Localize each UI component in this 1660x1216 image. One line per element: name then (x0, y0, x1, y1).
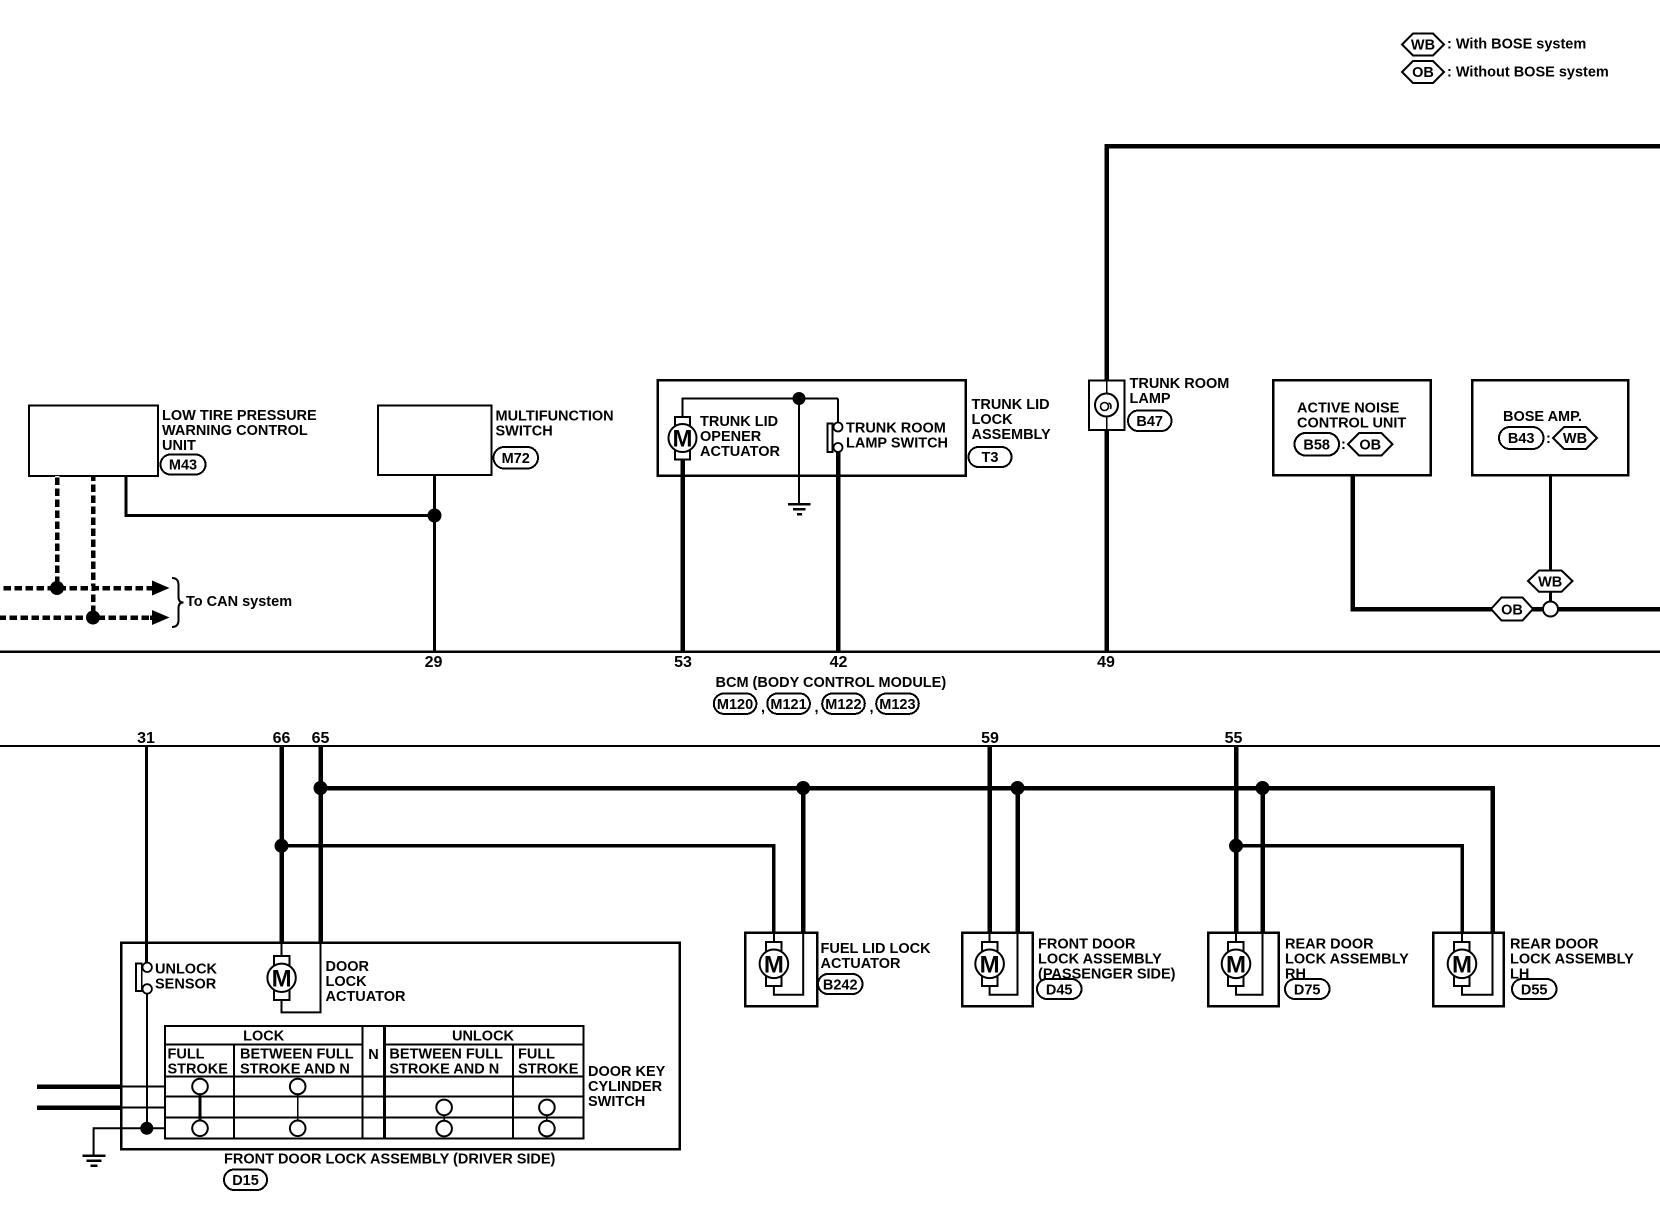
hexagon WB in BOSE box (1553, 427, 1597, 449)
connector oval B242 (818, 974, 863, 994)
svg-text:SENSOR: SENSOR (155, 977, 217, 993)
connector oval D75 (1285, 979, 1330, 999)
multifunction switch M72 box (378, 406, 492, 476)
CAN dashed vertical wire 1 (55, 476, 60, 588)
svg-text:MULTIFUNCTION: MULTIFUNCTION (496, 409, 614, 425)
trunk room lamp bulb (1095, 394, 1118, 417)
svg-text:B47: B47 (1136, 414, 1163, 430)
BCM bus line upper (0, 650, 1660, 653)
CAN dashed horizontal wire 1 (0, 586, 153, 591)
connector oval T3 (969, 447, 1012, 467)
CAN dashed horizontal wire 2 (0, 615, 153, 620)
svg-text:BETWEEN FULL: BETWEEN FULL (389, 1047, 503, 1063)
svg-text:M: M (1452, 951, 1472, 978)
switch contacts lock between full stroke and N (290, 1079, 306, 1136)
svg-text:M: M (980, 951, 1000, 978)
rear RH motor M (1222, 933, 1263, 995)
svg-text:REAR DOOR: REAR DOOR (1510, 936, 1599, 952)
wire rear RH loop vertical (1260, 788, 1265, 933)
svg-text:TRUNK ROOM: TRUNK ROOM (1130, 376, 1230, 392)
connector oval B43 (1499, 427, 1544, 449)
svg-text:UNLOCK: UNLOCK (452, 1029, 515, 1045)
wire pin 55 down (1234, 746, 1239, 933)
BCM bus line lower (0, 745, 1660, 747)
svg-text:BETWEEN FULL: BETWEEN FULL (240, 1047, 354, 1063)
label TRUNK ROOM LAMP (1130, 376, 1230, 407)
door key cylinder switch table (165, 1026, 584, 1139)
svg-text:B58: B58 (1303, 438, 1330, 454)
label MULTIFUNCTION SWITCH (496, 409, 614, 440)
svg-text:49: 49 (1097, 654, 1115, 671)
label TRUNK LID OPENER ACTUATOR (700, 414, 781, 460)
wire to ground (798, 399, 800, 504)
svg-text:TRUNK ROOM: TRUNK ROOM (846, 421, 946, 437)
svg-text:LOCK: LOCK (326, 974, 368, 990)
svg-text:D45: D45 (1046, 982, 1073, 998)
label FULL STROKE lock (168, 1047, 229, 1078)
wire top feed horizontal (1104, 144, 1660, 149)
label FUEL LID LOCK ACTUATOR (821, 941, 932, 972)
svg-text:LAMP SWITCH: LAMP SWITCH (846, 436, 948, 452)
legend OB symbol (1402, 61, 1609, 83)
svg-text:LAMP: LAMP (1130, 391, 1171, 407)
wire M72 to BCM pin 29 (433, 475, 436, 652)
CAN arrowhead 1 (152, 581, 170, 596)
svg-text:42: 42 (830, 654, 848, 671)
wire front loop vertical (1015, 788, 1020, 933)
wire rail B2 horizontal 55 to rear LH (1236, 844, 1464, 848)
wire rail B2 corner down to LH motor (1460, 844, 1464, 933)
front door lock assembly passenger box (962, 933, 1033, 1007)
front door motor M (975, 933, 1017, 995)
wire M43 to node A (126, 476, 435, 516)
svg-text:ACTUATOR: ACTUATOR (326, 989, 407, 1005)
label FRONT DOOR LOCK ASSEMBLY (PASSENGER SIDE) (1038, 936, 1176, 982)
connector oval M43 (161, 455, 206, 475)
junction dot rail A rear RH loop (1256, 781, 1270, 795)
joint circle WB/OB (1543, 602, 1558, 617)
switch contacts unlock full stroke (539, 1100, 555, 1137)
CAN dashed vertical wire 2 (91, 476, 96, 618)
hexagon OB on wire (1491, 598, 1533, 621)
label FULL STROKE unlock (518, 1047, 579, 1078)
svg-text:LOCK: LOCK (243, 1029, 285, 1045)
svg-text:ACTUATOR: ACTUATOR (821, 956, 902, 972)
junction dot CAN line 2 (86, 611, 100, 625)
svg-text:DOOR KEY: DOOR KEY (588, 1064, 666, 1080)
wire trunk motor to BCM pin 53 (680, 459, 685, 652)
svg-text:WB: WB (1538, 575, 1562, 591)
label REAR DOOR LOCK ASSEMBLY RH (1285, 936, 1409, 982)
svg-text:M123: M123 (879, 697, 915, 713)
wire unlock sensor to splice (146, 994, 148, 1129)
svg-text::: : (1341, 437, 1346, 453)
svg-text:55: 55 (1225, 730, 1243, 747)
ground symbol trunk (788, 504, 811, 514)
connector oval M122 (822, 694, 873, 717)
connector oval D55 (1512, 979, 1557, 999)
connector oval B47 (1128, 411, 1172, 432)
svg-text:REAR DOOR: REAR DOOR (1285, 936, 1374, 952)
rear door lock assembly RH box (1208, 933, 1279, 1007)
svg-text:M72: M72 (502, 451, 530, 467)
svg-text:65: 65 (312, 730, 330, 747)
junction dot sensor row 3 (140, 1122, 153, 1135)
svg-text:D15: D15 (232, 1173, 259, 1189)
svg-text:TRUNK LID: TRUNK LID (700, 414, 778, 430)
junction dot trunk rail (793, 392, 806, 405)
junction dot 65 rail A (314, 781, 328, 795)
wire stub row 2 (37, 1105, 122, 1110)
wire thin through lamp box (1106, 381, 1108, 431)
connector oval M123 (876, 694, 919, 714)
svg-text:FRONT DOOR LOCK ASSEMBLY (DRIV: FRONT DOOR LOCK ASSEMBLY (DRIVER SIDE) (224, 1152, 556, 1168)
svg-text:To CAN system: To CAN system (186, 594, 292, 610)
svg-text:53: 53 (674, 654, 692, 671)
wire pin 66 down (279, 746, 284, 943)
connector oval D45 (1037, 979, 1082, 999)
junction dot 66 rail B (275, 839, 289, 853)
svg-text:31: 31 (137, 730, 155, 747)
wire rail B corner down to fuel motor (772, 844, 776, 933)
svg-text:M121: M121 (770, 697, 806, 713)
svg-text:LOW TIRE PRESSURE: LOW TIRE PRESSURE (162, 408, 317, 424)
wire WB hexagon to joint (1549, 592, 1552, 603)
door lock actuator motor M (267, 943, 320, 1013)
wire row 3 to ground (94, 1128, 165, 1155)
svg-text:N: N (368, 1047, 378, 1063)
connector oval D15 (224, 1170, 267, 1191)
wire lamp switch to BCM pin 42 (836, 476, 841, 652)
switch contacts lock full stroke (192, 1079, 208, 1136)
svg-text:LOCK: LOCK (972, 412, 1014, 428)
wire ANC down (1350, 475, 1355, 611)
brace To CAN system (172, 578, 184, 627)
svg-text:CONTROL UNIT: CONTROL UNIT (1297, 416, 1406, 432)
label DOOR KEY CYLINDER SWITCH (588, 1064, 666, 1110)
connector oval B58 (1295, 433, 1340, 456)
trunk lid lock assembly T3 box (658, 380, 966, 476)
svg-text:WARNING CONTROL: WARNING CONTROL (162, 423, 308, 439)
label BETWEEN FULL STROKE AND N unlock (389, 1047, 503, 1078)
label UNLOCK SENSOR (155, 962, 218, 993)
front door lock assembly driver side D15 box (121, 943, 680, 1150)
svg-text:,: , (870, 700, 874, 716)
wire rail B horizontal 66 to fuel (282, 844, 776, 848)
svg-text:B43: B43 (1508, 431, 1535, 447)
trunk lid opener actuator motor (669, 417, 697, 460)
wire rail A horizontal (321, 786, 1495, 791)
svg-text:STROKE AND N: STROKE AND N (240, 1062, 350, 1078)
svg-text::: : (1546, 431, 1551, 447)
svg-text:T3: T3 (982, 450, 999, 466)
svg-text:OPENER: OPENER (700, 429, 762, 445)
svg-text:ASSEMBLY: ASSEMBLY (972, 427, 1052, 443)
svg-text:ACTIVE NOISE: ACTIVE NOISE (1297, 401, 1400, 417)
junction dot rail A fuel loop (796, 781, 810, 795)
svg-text:FULL: FULL (168, 1047, 205, 1063)
svg-text:59: 59 (981, 730, 999, 747)
svg-text:ACTUATOR: ACTUATOR (700, 444, 781, 460)
svg-text:STROKE: STROKE (518, 1062, 579, 1078)
svg-text:M: M (1226, 951, 1246, 978)
connector oval M120 (714, 694, 765, 717)
junction dot 55 rail B2 (1229, 839, 1243, 853)
svg-text:BOSE AMP.: BOSE AMP. (1503, 409, 1582, 425)
label LOW TIRE PRESSURE WARNING CONTROL UNIT (162, 408, 317, 454)
wire fuel loop vertical (801, 788, 806, 933)
wire lamp to BCM pin 49 (1104, 430, 1109, 652)
svg-text:FUEL LID LOCK: FUEL LID LOCK (821, 941, 932, 957)
svg-text:STROKE: STROKE (168, 1062, 229, 1078)
svg-text:D75: D75 (1294, 982, 1321, 998)
wire row 1 inside (122, 1086, 165, 1088)
unlock sensor (136, 963, 152, 994)
wire BOSE down (1549, 475, 1552, 571)
CAN arrowhead 2 (152, 610, 170, 625)
junction dot rail A front loop (1011, 781, 1025, 795)
svg-text:TRUNK LID: TRUNK LID (972, 397, 1050, 413)
svg-text:: Without BOSE system: : Without BOSE system (1447, 65, 1609, 81)
svg-text:WB: WB (1563, 431, 1587, 447)
svg-text:M120: M120 (717, 697, 753, 713)
legend WB symbol (1402, 34, 1586, 56)
svg-text:LOCK ASSEMBLY: LOCK ASSEMBLY (1285, 951, 1409, 967)
wire stub row 1 (37, 1084, 122, 1089)
rear LH motor M (1448, 933, 1493, 995)
wire pin 31 to unlock sensor (145, 746, 148, 963)
hexagon WB on wire (1528, 571, 1573, 592)
wire OB horizontal (1353, 607, 1660, 612)
svg-text:UNIT: UNIT (162, 438, 196, 454)
svg-text:29: 29 (425, 654, 443, 671)
connector oval M121 (767, 694, 818, 717)
wire pin 65 down (318, 746, 323, 943)
svg-text:DOOR: DOOR (326, 959, 370, 975)
label REAR DOOR LOCK ASSEMBLY LH (1510, 936, 1634, 982)
svg-text:FRONT DOOR: FRONT DOOR (1038, 936, 1136, 952)
svg-text:FULL: FULL (518, 1047, 555, 1063)
svg-text:M: M (764, 951, 784, 978)
svg-text:UNLOCK: UNLOCK (155, 962, 218, 978)
svg-text:M: M (272, 965, 292, 992)
wire row 2 inside (122, 1107, 165, 1109)
bose amp box (1472, 380, 1628, 475)
label TRUNK ROOM LAMP SWITCH (846, 421, 948, 452)
label BETWEEN FULL STROKE AND N lock (240, 1047, 354, 1078)
svg-text:STROKE AND N: STROKE AND N (389, 1062, 499, 1078)
rear door lock assembly LH box (1433, 933, 1504, 1007)
wire motor to top rail (682, 399, 684, 418)
trunk room lamp B47 box (1089, 381, 1125, 431)
fuel motor M (760, 933, 804, 995)
junction dot CAN line 1 (50, 581, 64, 595)
connector oval M72 (494, 447, 539, 469)
active noise control unit box (1273, 380, 1431, 475)
svg-text:66: 66 (273, 730, 291, 747)
svg-text:SWITCH: SWITCH (496, 424, 553, 440)
svg-text:M: M (673, 426, 693, 453)
svg-text:OB: OB (1501, 603, 1523, 619)
trunk room lamp switch (828, 399, 843, 477)
svg-text:CYLINDER: CYLINDER (588, 1079, 663, 1095)
svg-text:OB: OB (1412, 65, 1434, 81)
wire top rail inside trunk box (682, 398, 839, 400)
svg-text:LOCK ASSEMBLY: LOCK ASSEMBLY (1510, 951, 1634, 967)
hexagon OB in ANC box (1348, 433, 1393, 456)
fuel lid lock actuator box (745, 933, 817, 1007)
switch contacts unlock between full stroke and N (436, 1100, 452, 1137)
label TRUNK LID LOCK ASSEMBLY (972, 397, 1052, 443)
label DOOR LOCK ACTUATOR (326, 959, 407, 1005)
svg-text:M43: M43 (169, 458, 197, 474)
svg-text:OB: OB (1359, 438, 1381, 454)
wire rail A corner down to LH loop (1490, 786, 1495, 933)
svg-text:D55: D55 (1521, 982, 1548, 998)
svg-text:WB: WB (1411, 38, 1435, 54)
junction dot node A (428, 509, 442, 523)
svg-text:LOCK ASSEMBLY: LOCK ASSEMBLY (1038, 951, 1162, 967)
svg-text:,: , (761, 700, 765, 716)
low tire pressure warning control unit M43 box (29, 406, 158, 477)
wire pin 59 to front door motor (987, 746, 992, 933)
label ACTIVE NOISE CONTROL UNIT (1297, 401, 1406, 432)
svg-text:SWITCH: SWITCH (588, 1094, 645, 1110)
svg-text:BCM (BODY CONTROL MODULE): BCM (BODY CONTROL MODULE) (716, 675, 947, 691)
wire top feed vertical to trunk room lamp (1104, 144, 1109, 381)
svg-text:M122: M122 (825, 697, 861, 713)
ground symbol D15 (83, 1156, 106, 1166)
svg-text:,: , (815, 700, 819, 716)
svg-text:: With BOSE system: : With BOSE system (1447, 37, 1586, 53)
svg-text:B242: B242 (823, 977, 858, 993)
